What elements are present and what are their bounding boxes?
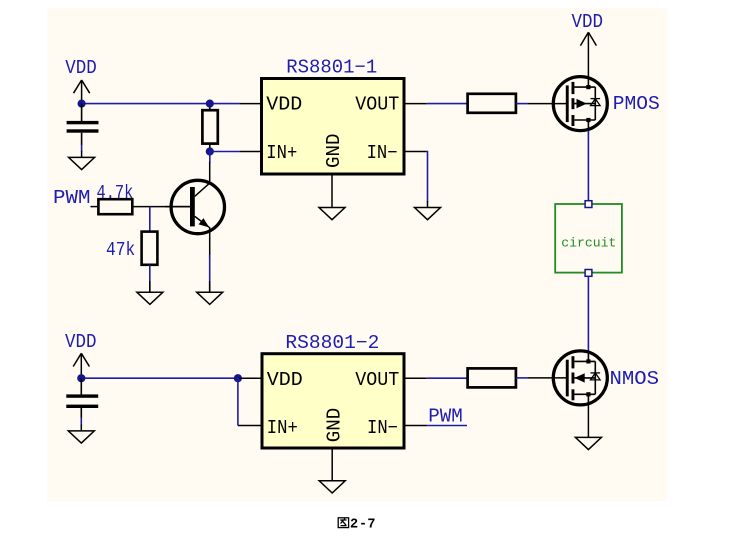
- pin U1 IN+: [239, 151, 261, 153]
- junction dot U2 VDD branch: [234, 374, 242, 382]
- wire R5 to NMOS gate: [516, 377, 528, 379]
- svg-text:VOUT: VOUT: [355, 369, 399, 391]
- wire R4 to PMOS gate: [516, 103, 528, 105]
- svg-text:RS8801−1: RS8801−1: [286, 57, 377, 79]
- resistor R3 47k (vertical): [142, 232, 158, 265]
- ground symbol (under Q1): [197, 281, 223, 304]
- wire R2 to Q1 base: [132, 206, 190, 208]
- wire U2 VOUT to R5: [427, 377, 468, 379]
- ground symbol (under R3): [137, 281, 163, 304]
- wire branch down to IN+: [237, 378, 239, 425]
- wire U2 IN- PWM: [427, 425, 467, 427]
- wire C1 to ground: [81, 145, 83, 152]
- svg-text:VDD: VDD: [266, 93, 302, 115]
- wire R bottom to IN+ pin: [210, 151, 240, 153]
- ground symbol (U1 IN-): [415, 201, 441, 220]
- resistor R2 4.7k (horizontal): [98, 199, 132, 214]
- svg-text:VDD: VDD: [572, 11, 604, 33]
- power flag VDD (bottom-left): [65, 331, 97, 378]
- ground symbol (under C1): [69, 151, 95, 170]
- svg-text:VDD: VDD: [65, 331, 97, 353]
- power flag VDD (above PMOS): [572, 11, 604, 77]
- svg-text:IN+: IN+: [267, 417, 298, 439]
- ground symbol (U2 GND): [319, 481, 345, 493]
- svg-text:RS8801−2: RS8801−2: [285, 332, 379, 354]
- svg-text:IN+: IN+: [266, 142, 297, 164]
- svg-text:7: 7: [367, 517, 375, 532]
- wire circuit block to NMOS drain: [587, 276, 589, 351]
- wire VDD net top (horizontal): [82, 103, 240, 105]
- junction dot at C1 top: [78, 100, 86, 108]
- wire R3 to ground: [149, 265, 151, 292]
- pin U1 VOUT: [404, 103, 427, 105]
- capacitor C2: [66, 378, 98, 418]
- port square circuit bottom: [585, 270, 592, 277]
- resistor R4 (PMOS gate): [468, 94, 516, 113]
- resistor R (pull-up, vertical): [202, 104, 217, 152]
- wire PMOS drain to circuit block: [587, 131, 589, 201]
- pin U1 GND: [331, 174, 333, 208]
- svg-text:circuit: circuit: [561, 236, 616, 251]
- port square circuit top: [585, 201, 592, 208]
- block circuit: [555, 204, 622, 273]
- wire U1 IN- to ground: [426, 152, 429, 203]
- wire R bottom to Q1 collector: [209, 152, 211, 164]
- pin U2 IN-: [404, 425, 427, 427]
- svg-text:IN−: IN−: [367, 142, 398, 164]
- svg-text:IN−: IN−: [367, 417, 398, 439]
- pin U1 IN-: [404, 151, 427, 153]
- wire Q1 emitter to ground: [209, 255, 211, 292]
- ground symbol (U1 GND): [319, 208, 345, 220]
- svg-text:PWM: PWM: [53, 187, 91, 209]
- pin U2 VOUT: [404, 377, 427, 379]
- wire PWM stub: [91, 206, 99, 208]
- power flag VDD (top-left): [65, 57, 97, 104]
- pin U2 VDD: [239, 377, 262, 379]
- transistor Q3 NMOS: [528, 351, 607, 405]
- pin U2 IN+: [238, 425, 262, 427]
- junction dot R bottom: [206, 147, 214, 155]
- wire C2 to ground: [80, 418, 82, 426]
- resistor R5 (NMOS gate): [468, 368, 516, 387]
- svg-text:GND: GND: [324, 408, 346, 443]
- svg-text:2: 2: [350, 517, 358, 532]
- pin U2 GND: [331, 448, 333, 481]
- svg-text:PMOS: PMOS: [613, 93, 660, 115]
- op-amp U2 RS8801-2: [262, 332, 404, 448]
- pin U1 VDD: [239, 103, 261, 105]
- svg-text:VOUT: VOUT: [355, 93, 399, 115]
- wire VDD net bottom (horizontal): [81, 377, 239, 379]
- wire NMOS source to ground: [587, 405, 589, 438]
- transistor Q1 NPN: [165, 162, 225, 258]
- junction dot R top: [206, 100, 214, 108]
- capacitor C1: [67, 104, 99, 145]
- svg-text:-: -: [359, 517, 367, 532]
- ground symbol (under C2): [68, 425, 94, 444]
- svg-text:VDD: VDD: [267, 369, 303, 391]
- svg-text:NMOS: NMOS: [610, 368, 660, 390]
- svg-text:PWM: PWM: [428, 406, 463, 428]
- svg-text:VDD: VDD: [65, 57, 97, 79]
- svg-text:47k: 47k: [106, 239, 135, 261]
- wire U1 VOUT to R4: [427, 103, 468, 105]
- op-amp U1 RS8801-1: [262, 57, 405, 174]
- wire tee down to R3 47k: [149, 207, 151, 232]
- caption figure 2-7: [338, 517, 375, 532]
- junction dot at C2 top: [77, 374, 85, 382]
- svg-text:GND: GND: [323, 134, 345, 169]
- transistor Q2 PMOS: [528, 77, 607, 131]
- ground symbol (under NMOS): [575, 437, 601, 449]
